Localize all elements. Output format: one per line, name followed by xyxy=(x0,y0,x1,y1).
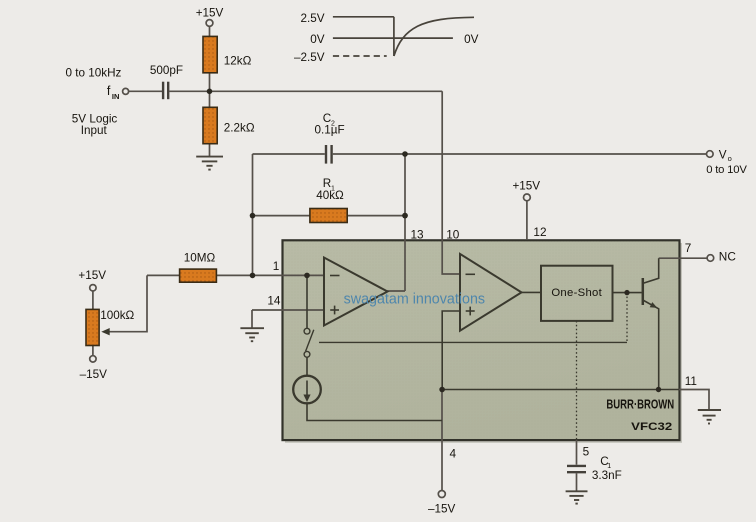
svg-text:12: 12 xyxy=(533,225,546,239)
svg-text:0 to 10V: 0 to 10V xyxy=(706,164,747,176)
svg-text:40kΩ: 40kΩ xyxy=(316,189,344,202)
svg-text:0V: 0V xyxy=(464,33,479,46)
svg-text:IN: IN xyxy=(112,92,120,101)
svg-text:13: 13 xyxy=(411,227,425,241)
svg-text:7: 7 xyxy=(685,241,692,255)
svg-text:5: 5 xyxy=(583,445,590,459)
svg-text:One-Shot: One-Shot xyxy=(551,287,602,299)
svg-text:NC: NC xyxy=(719,250,737,264)
svg-text:f: f xyxy=(107,84,111,98)
svg-text:14: 14 xyxy=(267,294,281,308)
svg-text:+15V: +15V xyxy=(512,179,540,192)
svg-text:2.5V: 2.5V xyxy=(300,12,324,25)
svg-text:+15V: +15V xyxy=(196,7,224,20)
svg-text:100kΩ: 100kΩ xyxy=(100,309,134,322)
svg-text:0 to 10kHz: 0 to 10kHz xyxy=(66,66,122,79)
svg-text:4: 4 xyxy=(450,447,457,461)
svg-text:0.1µF: 0.1µF xyxy=(315,124,345,137)
svg-text:500pF: 500pF xyxy=(150,64,183,77)
svg-text:10: 10 xyxy=(446,227,460,241)
svg-text:3.3nF: 3.3nF xyxy=(592,469,622,482)
svg-text:swagatam innovations: swagatam innovations xyxy=(344,291,485,307)
svg-text:+15V: +15V xyxy=(78,269,106,282)
svg-text:R: R xyxy=(323,177,331,190)
svg-text:–2.5V: –2.5V xyxy=(294,51,325,64)
svg-text:V: V xyxy=(719,148,727,161)
svg-text:2.2kΩ: 2.2kΩ xyxy=(224,122,255,135)
svg-text:10MΩ: 10MΩ xyxy=(184,252,216,265)
svg-text:11: 11 xyxy=(685,374,697,388)
svg-text:o: o xyxy=(728,154,732,163)
svg-text:BURR·BROWN: BURR·BROWN xyxy=(606,397,674,412)
svg-text:–15V: –15V xyxy=(80,368,108,381)
svg-text:–15V: –15V xyxy=(428,502,456,515)
svg-text:12kΩ: 12kΩ xyxy=(224,55,252,68)
svg-text:0V: 0V xyxy=(310,33,325,46)
svg-text:Input: Input xyxy=(81,124,108,137)
svg-text:1: 1 xyxy=(273,259,280,273)
svg-text:VFC32: VFC32 xyxy=(631,421,672,433)
